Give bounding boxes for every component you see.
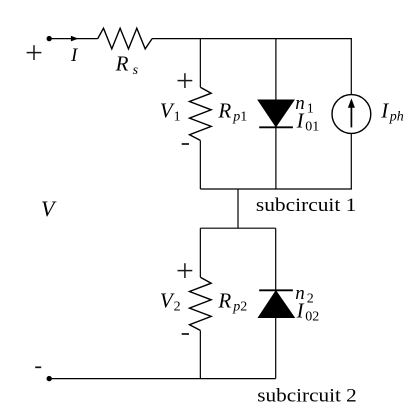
wire subcircuit1 bottom [200, 188, 352, 190]
svg-text:s: s [133, 63, 139, 78]
diode D2 [258, 290, 294, 317]
current arrow I [71, 36, 79, 42]
svg-text:1: 1 [240, 110, 247, 125]
label + (V1 polarity) [178, 73, 193, 88]
svg-text:01: 01 [305, 120, 319, 135]
svg-text:subcircuit 1: subcircuit 1 [256, 195, 357, 216]
label + (V2 polarity) [178, 263, 193, 278]
wire connector between subcircuits [237, 189, 239, 228]
svg-text:1: 1 [307, 101, 314, 116]
svg-text:2: 2 [240, 300, 247, 315]
svg-text:2: 2 [307, 291, 314, 306]
resistor Rp2 [190, 277, 212, 330]
label - (V2 polarity) [182, 333, 189, 335]
resistor Rs [98, 28, 152, 49]
svg-text:02: 02 [305, 310, 319, 325]
positive terminal + [27, 45, 42, 60]
svg-text:I: I [296, 108, 305, 132]
svg-text:R: R [115, 52, 129, 76]
svg-text:p: p [232, 110, 240, 125]
resistor Rp1 [190, 87, 212, 140]
svg-text:2: 2 [174, 300, 181, 315]
wire Rp2 branch bottom [199, 330, 201, 378]
wire Rp1 branch bottom [199, 140, 201, 189]
node A (+ terminal dot) [47, 36, 52, 41]
negative terminal - [35, 366, 41, 368]
svg-text:I: I [296, 298, 305, 322]
wire diode2 branch [275, 228, 277, 378]
svg-text:R: R [217, 289, 231, 313]
svg-text:1: 1 [174, 110, 181, 125]
label - (V1 polarity) [182, 143, 189, 145]
svg-text:p: p [232, 300, 240, 315]
wire Rp1 branch top [199, 39, 201, 88]
wire from + terminal to Rs [49, 38, 97, 40]
svg-text:subcircuit 2: subcircuit 2 [257, 385, 357, 406]
wire subcircuit2 top [200, 227, 275, 229]
svg-text:I: I [380, 98, 389, 122]
diode D1 [258, 100, 294, 127]
svg-text:ph: ph [389, 110, 404, 125]
wire from Rs to top-right corner [152, 38, 352, 40]
wire diode1 branch [275, 39, 277, 189]
wire bottom [49, 378, 276, 380]
wire current-source branch bottom [350, 133, 352, 189]
svg-text:R: R [217, 99, 231, 123]
wire current-source branch top [350, 39, 352, 95]
current source Iph [332, 95, 371, 134]
wire Rp2 branch top [199, 228, 201, 277]
node B (- terminal dot) [47, 376, 52, 381]
